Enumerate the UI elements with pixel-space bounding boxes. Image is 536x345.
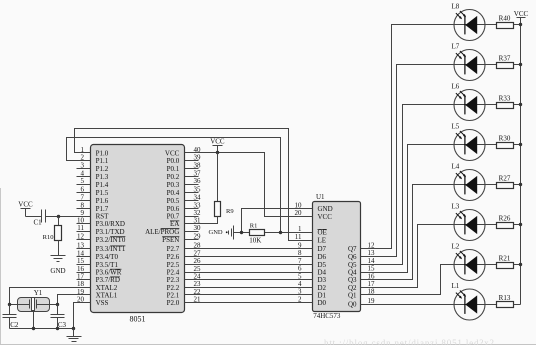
resistor R10 — [55, 217, 62, 241]
label Y1 — [34, 289, 43, 297]
svg-text:8051: 8051 — [130, 315, 146, 324]
svg-text:P0.2: P0.2 — [167, 173, 180, 181]
svg-text:34: 34 — [194, 193, 202, 201]
ground bottom — [67, 329, 82, 342]
svg-text:R27: R27 — [499, 174, 511, 182]
wire latch Q4 to LED L5 — [361, 145, 497, 273]
capacitor C3 — [51, 305, 65, 329]
wire latch Q2 to LED L3 — [361, 225, 497, 288]
LED L7 — [454, 50, 485, 81]
LED L6 — [454, 90, 485, 121]
label U1 — [316, 193, 325, 201]
label R1 — [250, 222, 258, 229]
resistor R33 — [497, 103, 521, 109]
8051 pin 17 (P3.7/RD) — [77, 273, 120, 285]
8051 pin 34 (P0.5) — [167, 193, 201, 205]
junction VCC pin40 node — [216, 151, 219, 154]
latch U1 pin 9 (D7) — [298, 241, 327, 253]
latch U1 pin 2 (D0) — [298, 295, 327, 307]
8051 pin 35 (P0.4) — [167, 185, 201, 197]
wire GND to R1 to latch pin1 OE — [234, 232, 313, 234]
8051 pin 37 (P0.2) — [167, 169, 201, 181]
LED L4 — [454, 170, 485, 201]
8051 pin 36 (P0.3) — [167, 177, 201, 189]
svg-text:13: 13 — [77, 242, 85, 250]
svg-text:GND: GND — [50, 267, 65, 275]
svg-text:P1.0: P1.0 — [96, 149, 109, 157]
power VCC left — [18, 201, 33, 217]
8051 pin 11 (P3.1/TXD) — [77, 224, 125, 236]
8051 pin 8 (P1.7) — [77, 201, 109, 213]
resistor R40 — [497, 23, 521, 29]
wire latch Q0 to LED L1 — [361, 304, 497, 306]
svg-text:11: 11 — [77, 224, 84, 232]
svg-text:P1.1: P1.1 — [96, 157, 109, 165]
8051 pin 14 (P3.4/T0) — [77, 249, 119, 261]
wire C1 to 8051 pin9 RST — [46, 216, 91, 218]
label L1 — [452, 282, 460, 290]
8051 pin 40 (VCC) — [165, 146, 201, 158]
svg-text:P1.5: P1.5 — [96, 189, 109, 197]
label R26 — [499, 214, 511, 222]
svg-text:D1: D1 — [318, 291, 327, 299]
junction VCC rail at R21 — [519, 263, 522, 266]
latch U1 pin 8 (D6) — [298, 249, 327, 261]
label L7 — [452, 43, 460, 51]
junction R1 left node — [240, 231, 243, 234]
wire P2.1 to latch D1 — [185, 294, 313, 296]
svg-text:L3: L3 — [452, 203, 460, 211]
svg-text:R21: R21 — [499, 254, 511, 262]
svg-text:R30: R30 — [499, 134, 511, 142]
svg-text:R1: R1 — [250, 222, 258, 229]
ground GND mid (sideways earth) — [209, 226, 234, 240]
wire latch Q3 to LED L4 — [361, 185, 497, 280]
svg-text:L7: L7 — [452, 43, 460, 51]
label L2 — [452, 243, 460, 251]
capacitor C2 — [3, 305, 17, 329]
LED L8 — [454, 10, 485, 41]
svg-text:35: 35 — [194, 185, 202, 193]
junction VCC rail at R26 — [519, 223, 522, 226]
svg-text:ALE/PROG: ALE/PROG — [145, 228, 179, 236]
svg-text:VCC: VCC — [18, 201, 33, 209]
label R13 — [499, 294, 511, 302]
capacitor C1 — [42, 210, 46, 223]
8051 pin 21 (P2.0) — [167, 296, 201, 308]
svg-text:L5: L5 — [452, 123, 460, 131]
resistor R13 — [497, 302, 521, 308]
watermark — [324, 338, 494, 345]
svg-text:R13: R13 — [499, 294, 511, 302]
svg-text:VCC: VCC — [165, 149, 180, 157]
8051 pin 13 (P3.3/INT1) — [77, 242, 126, 254]
svg-text:P3.4/T0: P3.4/T0 — [96, 253, 119, 261]
latch U1 pin 19 (Q0) — [348, 297, 375, 309]
8051 pin 3 (P1.2) — [77, 162, 109, 174]
svg-text:L1: L1 — [452, 282, 460, 290]
resistor R26 — [497, 223, 521, 229]
svg-text:9: 9 — [81, 209, 85, 217]
svg-text:6: 6 — [81, 185, 85, 193]
junction crystal case ground — [32, 327, 35, 330]
svg-text:R9: R9 — [226, 208, 234, 215]
wire VCC to 8051 pin40 and latch pin20 VCC — [185, 153, 313, 217]
8051 pin 19 (XTAL1) — [77, 288, 118, 300]
svg-text:L2: L2 — [452, 243, 460, 251]
svg-text:R33: R33 — [499, 94, 511, 102]
resistor R27 — [497, 183, 521, 189]
svg-text:L6: L6 — [452, 83, 460, 91]
junction RST node — [57, 215, 60, 218]
wire R10 to ground — [58, 241, 60, 256]
8051 pin 22 (P2.1) — [167, 288, 201, 300]
latch U1 pin 5 (D3) — [298, 272, 327, 284]
svg-text:P1.2: P1.2 — [96, 165, 109, 173]
label 8051 — [130, 315, 146, 324]
microcontroller 8051 body — [91, 145, 185, 313]
svg-text:P1.4: P1.4 — [96, 181, 109, 189]
svg-text:P0.4: P0.4 — [167, 189, 180, 197]
latch U1 74HC573 body — [313, 202, 361, 312]
label 10K — [249, 237, 261, 245]
label L4 — [452, 163, 460, 171]
resistor R37 — [497, 63, 521, 69]
wire P2.4 to latch D4 — [185, 272, 313, 274]
svg-text:OE: OE — [318, 229, 327, 237]
wire P2.7 to latch D7 — [185, 248, 313, 250]
resistor R1 — [250, 230, 265, 236]
svg-text:LE: LE — [318, 237, 327, 245]
LED L1 — [454, 289, 485, 320]
8051 pin 27 (P2.6) — [167, 249, 201, 261]
latch U1 pin 11 (LE) — [295, 233, 326, 245]
crystal Y1 — [10, 298, 58, 312]
wire P2.5 to latch D5 — [185, 264, 313, 266]
svg-text:R10: R10 — [43, 234, 54, 241]
svg-text:38: 38 — [194, 162, 202, 170]
LED L3 — [454, 210, 485, 241]
svg-text:30: 30 — [194, 224, 202, 232]
svg-text:39: 39 — [194, 154, 202, 162]
svg-text:D7: D7 — [318, 245, 327, 253]
label L3 — [452, 203, 460, 211]
svg-text:5: 5 — [81, 177, 85, 185]
wire latch Q5 to LED L6 — [361, 105, 497, 265]
label R30 — [499, 134, 511, 142]
svg-text:Q1: Q1 — [348, 291, 357, 299]
svg-text:D6: D6 — [318, 253, 327, 261]
svg-text:D0: D0 — [318, 299, 327, 307]
svg-text:P0.0: P0.0 — [167, 157, 180, 165]
8051 pin 25 (P2.4) — [167, 265, 201, 277]
8051 pin 4 (P1.3) — [77, 169, 109, 181]
svg-text:29: 29 — [194, 232, 202, 240]
svg-text:Q6: Q6 — [348, 253, 357, 261]
latch U1 pin 3 (D1) — [298, 288, 327, 300]
svg-text:VSS: VSS — [96, 299, 109, 307]
junction VCC rail at R37 — [519, 63, 522, 66]
junction VCC rail at R27 — [519, 183, 522, 186]
8051 pin 6 (P1.5) — [77, 185, 109, 197]
power VCC right rail — [514, 10, 529, 305]
svg-text:C2: C2 — [10, 321, 19, 329]
latch U1 pin 14 (Q5) — [348, 257, 375, 269]
wire 8051 pin18 XTAL2 to crystal — [10, 288, 91, 305]
8051 pin 29 (PSEN) — [162, 232, 201, 244]
wire P2.2 to latch D2 — [185, 287, 313, 289]
junction VCC rail at R30 — [519, 143, 522, 146]
svg-text:GND: GND — [318, 205, 333, 213]
svg-text:Q7: Q7 — [348, 245, 357, 253]
label R10 — [43, 234, 54, 241]
svg-text:R37: R37 — [499, 54, 511, 62]
8051 pin 7 (P1.6) — [77, 193, 109, 205]
label R27 — [499, 174, 511, 182]
svg-text:P2.1: P2.1 — [167, 291, 180, 299]
wire P2.6 to latch D6 — [185, 256, 313, 258]
svg-text:L8: L8 — [452, 3, 460, 11]
svg-text:XTAL1: XTAL1 — [96, 291, 118, 299]
svg-text:VCC: VCC — [210, 138, 225, 146]
resistor R21 — [497, 263, 521, 269]
svg-text:P1.3: P1.3 — [96, 173, 109, 181]
resistor R30 — [497, 143, 521, 149]
8051 pin 24 (P2.3) — [167, 273, 201, 285]
8051 pin 38 (P0.1) — [167, 162, 201, 174]
svg-text:12: 12 — [77, 232, 85, 240]
svg-text:37: 37 — [194, 169, 202, 177]
8051 pin 31 (EA) — [170, 217, 201, 229]
latch U1 pin 1 (OE) — [298, 225, 327, 237]
svg-text:PSEN: PSEN — [162, 236, 179, 244]
svg-text:P1.6: P1.6 — [96, 197, 109, 205]
junction C3 ground — [56, 327, 59, 330]
svg-text:P0.5: P0.5 — [167, 197, 180, 205]
svg-text:19: 19 — [368, 297, 376, 305]
label C2 — [10, 321, 19, 329]
junction crystal right — [56, 303, 59, 306]
svg-text:3: 3 — [81, 162, 85, 170]
latch U1 pin 17 (Q2) — [348, 280, 375, 292]
svg-text:VCC: VCC — [514, 10, 529, 18]
svg-text:Q0: Q0 — [348, 301, 357, 309]
svg-text:P3.2/INT0: P3.2/INT0 — [96, 236, 126, 244]
8051 pin 26 (P2.5) — [167, 257, 201, 269]
8051 pin 16 (P3.6/WR) — [77, 265, 122, 277]
latch U1 pin 10 (GND) — [295, 201, 333, 213]
wire P2.3 to latch D3 — [185, 279, 313, 281]
latch U1 pin 12 (Q7) — [348, 241, 375, 253]
power VCC mid — [210, 138, 225, 153]
svg-text:7: 7 — [81, 193, 85, 201]
label GND left — [50, 267, 65, 275]
svg-text:RST: RST — [96, 212, 110, 220]
svg-text:P0.7: P0.7 — [167, 212, 180, 220]
latch U1 pin 20 (VCC) — [295, 209, 333, 221]
svg-text:L4: L4 — [452, 163, 460, 171]
ground below R10 — [51, 256, 66, 262]
label R33 — [499, 94, 511, 102]
label L5 — [452, 123, 460, 131]
latch U1 pin 16 (Q3) — [348, 272, 375, 284]
wire 8051 pin20 VSS to ground — [74, 303, 91, 329]
latch U1 pin 6 (D4) — [298, 265, 327, 277]
8051 pin 23 (P2.2) — [167, 280, 201, 292]
svg-text:C3: C3 — [58, 321, 67, 329]
LED L5 — [454, 130, 485, 161]
latch U1 pin 15 (Q4) — [348, 265, 375, 277]
8051 pin 18 (XTAL2) — [77, 280, 118, 292]
svg-text:R26: R26 — [499, 214, 511, 222]
wire R9 to 8051 pin31 EA — [185, 217, 218, 224]
8051 pin 5 (P1.4) — [77, 177, 109, 189]
8051 pin 33 (P0.6) — [167, 201, 201, 213]
8051 pin 39 (P0.0) — [167, 154, 201, 166]
LED L2 — [454, 250, 485, 281]
label R9 — [226, 208, 234, 215]
8051 pin 30 (ALE/PROG) — [145, 224, 201, 236]
junction VCC rail at R40 — [519, 23, 522, 26]
svg-text:U1: U1 — [316, 193, 325, 201]
svg-text:74HC573: 74HC573 — [313, 312, 341, 320]
svg-text:P3.3/INT1: P3.3/INT1 — [96, 245, 126, 253]
svg-text:P2.0: P2.0 — [167, 299, 180, 307]
svg-text:14: 14 — [77, 249, 85, 257]
svg-text:Y1: Y1 — [34, 289, 43, 297]
resistor R9 — [215, 153, 221, 217]
label C1 — [34, 218, 43, 226]
label C3 — [58, 321, 67, 329]
svg-text:P2.7: P2.7 — [167, 245, 180, 253]
latch U1 pin 4 (D2) — [298, 280, 327, 292]
wire latch Q6 to LED L7 — [361, 65, 497, 257]
latch U1 pin 13 (Q6) — [348, 249, 375, 261]
svg-text:32: 32 — [194, 209, 202, 217]
junction OE node — [279, 231, 282, 234]
svg-text:P0.3: P0.3 — [167, 181, 180, 189]
svg-text:R40: R40 — [499, 14, 511, 22]
8051 pin 9 (RST) — [77, 209, 110, 221]
svg-text:GND: GND — [209, 229, 223, 236]
label R37 — [499, 54, 511, 62]
svg-text:P3.1/TXD: P3.1/TXD — [96, 228, 125, 236]
svg-text:VCC: VCC — [318, 213, 333, 221]
junction VSS ground — [72, 327, 75, 330]
label 74HC573 — [313, 312, 341, 320]
wire P1.1 to latch pin1 OE node — [67, 138, 281, 233]
svg-text:11: 11 — [295, 233, 302, 241]
8051 pin 15 (P3.5/T1) — [77, 257, 119, 269]
svg-text:36: 36 — [194, 177, 202, 185]
wire 8051 pin19 XTAL1 to crystal — [58, 295, 91, 305]
wire crystal case to ground — [33, 312, 35, 329]
8051 pin 20 (VSS) — [77, 296, 109, 308]
wire latch Q1 to LED L2 — [361, 265, 497, 295]
svg-text:10K: 10K — [249, 237, 261, 245]
svg-text:P2.6: P2.6 — [167, 253, 180, 261]
8051 pin 28 (P2.7) — [167, 242, 201, 254]
wire P1.0 to latch pin11 LE — [75, 129, 313, 241]
8051 pin 2 (P1.1) — [77, 154, 109, 166]
junction VCC rail at R33 — [519, 103, 522, 106]
wire VCC to C1 — [26, 216, 42, 218]
latch U1 pin 7 (D5) — [298, 257, 327, 269]
svg-text:1: 1 — [298, 225, 302, 233]
svg-text:htt ;//blog.csdn.net/dianzi 80: htt ;//blog.csdn.net/dianzi 8051 led?x2 — [324, 338, 494, 345]
wire GND node to latch pin10 GND — [242, 209, 313, 233]
svg-text:C1: C1 — [34, 218, 43, 226]
junction crystal left — [8, 303, 11, 306]
label L6 — [452, 83, 460, 91]
label L8 — [452, 3, 460, 11]
8051 pin 1 (P1.0) — [77, 146, 109, 158]
latch U1 pin 18 (Q1) — [348, 288, 375, 300]
label R40 — [499, 14, 511, 22]
8051 pin 32 (P0.7) — [167, 209, 201, 221]
svg-text:4: 4 — [81, 169, 85, 177]
wire latch Q7 to LED L8 — [361, 25, 497, 249]
svg-text:P0.1: P0.1 — [167, 165, 180, 173]
8051 pin 12 (P3.2/INT0) — [77, 232, 126, 244]
wire crystal ground bus — [10, 328, 74, 330]
8051 pin 10 (P3.0/RXD) — [77, 217, 125, 229]
label R21 — [499, 254, 511, 262]
wire P2.0 to latch D0 — [185, 302, 313, 304]
